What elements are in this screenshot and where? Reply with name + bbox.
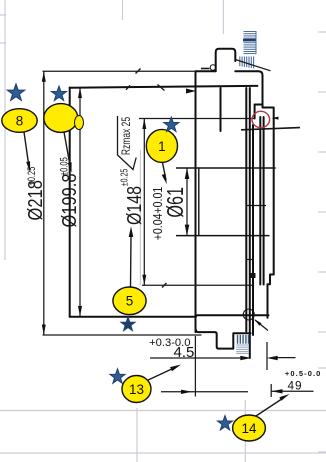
svg-text:1: 1 [158, 139, 166, 154]
svg-text:Ø218: Ø218 [23, 180, 46, 220]
svg-text:±0.25: ±0.25 [118, 169, 130, 186]
svg-text:Ø199.8: Ø199.8 [57, 173, 80, 227]
svg-text:14: 14 [241, 421, 257, 436]
svg-text:5: 5 [126, 294, 134, 309]
svg-text:Ø148: Ø148 [122, 186, 145, 225]
svg-text:±0.05: ±0.05 [58, 157, 70, 176]
svg-text:49: 49 [288, 378, 303, 392]
svg-text:±0.25: ±0.25 [26, 167, 38, 186]
svg-text:8: 8 [16, 113, 24, 128]
svg-text:4.5: 4.5 [174, 344, 195, 361]
svg-text:+0.5-0.0: +0.5-0.0 [285, 369, 322, 378]
svg-text:Ø61: Ø61 [163, 187, 188, 218]
svg-text:Rzmax 25: Rzmax 25 [120, 117, 134, 155]
svg-text:13: 13 [129, 382, 144, 397]
